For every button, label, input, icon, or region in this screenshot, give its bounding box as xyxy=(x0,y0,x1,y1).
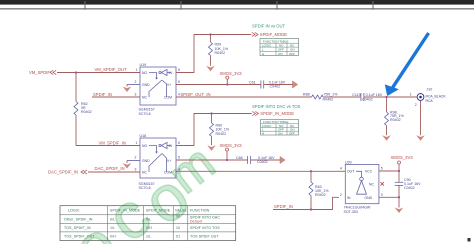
logic table bottom left xyxy=(60,206,236,241)
svg-text:R0402: R0402 xyxy=(81,110,92,114)
bottom right mark xyxy=(468,238,471,242)
svg-text:SPDIF_OUT_IN: SPDIF_OUT_IN xyxy=(181,92,211,97)
svg-text:R0402: R0402 xyxy=(315,193,326,197)
svg-text:SPDIF_IN: SPDIF_IN xyxy=(274,204,293,209)
svg-text:R0402: R0402 xyxy=(390,118,401,122)
resistor R62 xyxy=(74,73,92,146)
power XMOS_3V3 on U18 V+ xyxy=(220,143,243,160)
svg-text:3: 3 xyxy=(135,168,137,172)
svg-text:SPDIF_MODE: SPDIF_MODE xyxy=(146,209,171,213)
svg-text:U18: U18 xyxy=(140,134,147,138)
resistor R60 xyxy=(210,114,230,146)
svg-text:U20: U20 xyxy=(345,160,352,164)
svg-text:NC: NC xyxy=(142,171,147,175)
off-page arrow right C61 xyxy=(293,81,298,88)
svg-text:3: 3 xyxy=(381,193,383,197)
svg-text:5: 5 xyxy=(381,167,383,171)
function table 1 xyxy=(260,39,299,56)
svg-text:C119: C119 xyxy=(352,93,360,97)
op-amp U20 inverter 74HC1GU04 xyxy=(340,160,384,214)
svg-text:TOS_SPDIF_OUT: TOS_SPDIF_OUT xyxy=(64,234,95,238)
svg-text:6: 6 xyxy=(178,141,180,145)
power XMOS_3V3 on U20 xyxy=(391,155,414,171)
svg-text:SPDIF INTO TOS: SPDIF INTO TOS xyxy=(190,226,220,230)
power XMOS_3V3 on U19 V+ xyxy=(220,71,243,84)
wire C119 to RCA xyxy=(364,96,417,98)
svg-text:GND: GND xyxy=(142,159,150,163)
capacitor C90 xyxy=(395,171,421,197)
svg-text:DAC_SPDIF_IN: DAC_SPDIF_IN xyxy=(48,169,78,174)
svg-text:2: 2 xyxy=(135,80,137,84)
svg-text:C0402: C0402 xyxy=(404,186,415,190)
svg-text:5: 5 xyxy=(178,156,180,160)
svg-text:NO: NO xyxy=(142,71,147,75)
svg-text:0/L: 0/L xyxy=(110,217,115,221)
wire SPDIF_IN to U20 pin2 xyxy=(273,197,339,209)
svg-text:RCA: RCA xyxy=(426,99,434,103)
svg-text:VALUE: VALUE xyxy=(175,209,187,213)
wire U19 pin5 V+ xyxy=(176,84,261,86)
svg-text:SC70-6: SC70-6 xyxy=(139,112,151,116)
junction at VM_SPDIF / R62 xyxy=(75,71,77,73)
svg-text:01: 01 xyxy=(176,234,180,238)
wire U19 pin6 up to SPDIF_MODE xyxy=(176,35,251,73)
wire U20 OUT stub xyxy=(339,170,345,172)
wire U18 pin6 up to SPDIF_IN_MODE xyxy=(176,114,252,146)
svg-text:0/L: 0/L xyxy=(146,217,151,221)
ground below J10 xyxy=(416,135,425,141)
ground below R59 xyxy=(206,66,215,72)
svg-text:Other_SPDIF_IN: Other_SPDIF_IN xyxy=(64,217,93,221)
svg-text:R0402: R0402 xyxy=(323,97,334,101)
svg-text:1/L: 1/L xyxy=(110,226,115,230)
svg-text:SPDIF_MODE: SPDIF_MODE xyxy=(260,32,287,37)
wire J10 pin2 to ground xyxy=(420,101,422,136)
resistor R98 xyxy=(385,97,405,135)
svg-text:75R_1%: 75R_1% xyxy=(324,93,339,97)
wire VM_SPDIF to U19 pin1 xyxy=(57,72,140,74)
ground below U20 xyxy=(395,208,404,214)
svg-text:XMOS_3V3: XMOS_3V3 xyxy=(391,155,414,160)
junction R60 xyxy=(210,112,212,114)
svg-text:2: 2 xyxy=(340,193,342,197)
svg-text:SOT-353: SOT-353 xyxy=(344,210,358,214)
capacitor C61 xyxy=(249,80,286,88)
resistor R63 xyxy=(309,171,329,209)
svg-text:COM: COM xyxy=(164,96,172,100)
wire U18 pin4 COM to U20 xyxy=(176,170,339,172)
wire U20 GND xyxy=(379,196,399,198)
svg-text:VCC: VCC xyxy=(365,170,373,174)
svg-text:1/L: 1/L xyxy=(146,234,151,238)
svg-text:LOGIC: LOGIC xyxy=(68,209,80,213)
transistor U18 analog switch SGM3157 xyxy=(135,134,181,190)
svg-text:C61: C61 xyxy=(249,80,256,84)
top toolbar xyxy=(0,0,474,10)
svg-text:2: 2 xyxy=(135,156,137,160)
capacitor C119 xyxy=(352,93,382,102)
off-page arrow right C66 xyxy=(280,157,285,164)
svg-text:GND: GND xyxy=(142,83,150,87)
svg-text:1: 1 xyxy=(136,141,138,145)
svg-text:10: 10 xyxy=(176,226,180,230)
svg-text:FUNCTION: FUNCTION xyxy=(190,209,210,213)
ground at U18 pin2 xyxy=(123,161,140,169)
svg-text:DAC_SPDIF_IN: DAC_SPDIF_IN xyxy=(95,166,125,171)
U19 switch symbol xyxy=(149,73,157,79)
svg-text:IN: IN xyxy=(169,144,173,148)
svg-text:XMOS_3V3: XMOS_3V3 xyxy=(220,71,243,76)
svg-text:SC70-6: SC70-6 xyxy=(139,186,151,190)
off-page connector SPDIF_MODE xyxy=(252,32,287,37)
U20 inverter triangle xyxy=(360,177,364,181)
U20 NC X mark xyxy=(381,182,385,186)
node DAC_SPDIF_IN off-page connector xyxy=(48,169,87,174)
ground below R98 xyxy=(382,135,391,141)
junction R98 node xyxy=(385,96,387,98)
resistor R88 xyxy=(303,93,338,102)
svg-text:VM_SPDIF_OUT: VM_SPDIF_OUT xyxy=(95,67,128,72)
connector J10 RCA xyxy=(410,87,447,107)
svg-text:SPDIF_IN_MODE: SPDIF_IN_MODE xyxy=(260,111,294,116)
svg-text:VM_SPDIF: VM_SPDIF xyxy=(29,70,50,75)
svg-text:5: 5 xyxy=(178,80,180,84)
svg-text:GND: GND xyxy=(365,196,373,200)
wire U20 VCC to power xyxy=(379,170,399,172)
svg-text:COM: COM xyxy=(164,171,172,175)
junction R63 bottom xyxy=(310,208,312,210)
svg-text:IN: IN xyxy=(169,71,173,75)
svg-text:ON: ON xyxy=(278,131,283,135)
svg-text:NO: NO xyxy=(142,144,147,148)
ground below R60 xyxy=(207,145,216,151)
resistor R59 xyxy=(209,35,229,66)
svg-text:RCA_BLACK: RCA_BLACK xyxy=(426,94,447,98)
svg-text:VM_SPDIF_IN: VM_SPDIF_IN xyxy=(99,140,126,145)
svg-text:ON: ON xyxy=(278,52,283,56)
junction R63 top xyxy=(310,170,312,172)
capacitor C66 xyxy=(236,156,275,164)
function table 2 xyxy=(261,120,299,136)
svg-text:R88: R88 xyxy=(303,93,310,97)
svg-text:Default: Default xyxy=(190,219,202,223)
node VM_SPDIF off-page connector xyxy=(29,70,56,75)
svg-text:OUT: OUT xyxy=(347,170,354,174)
U18 inverter bubble symbol xyxy=(161,142,167,148)
svg-text:NC: NC xyxy=(369,182,374,186)
svg-text:H: H xyxy=(262,131,264,135)
watermark green com xyxy=(61,134,225,244)
ground at U19 pin2 xyxy=(123,85,140,93)
U18 switch symbol xyxy=(149,146,157,153)
svg-text:2: 2 xyxy=(415,103,417,107)
blue annotation arrow xyxy=(385,33,429,96)
svg-text:R0402: R0402 xyxy=(215,51,226,55)
wire R88 to C119 xyxy=(323,96,361,98)
svg-text:TOS SPDIF OUT: TOS SPDIF OUT xyxy=(190,234,219,238)
svg-text:OFF: OFF xyxy=(289,52,295,56)
svg-text:3: 3 xyxy=(135,93,137,97)
svg-text:C66: C66 xyxy=(236,156,243,160)
svg-text:NC: NC xyxy=(142,96,147,100)
svg-text:OFF: OFF xyxy=(289,131,295,135)
svg-text:V+: V+ xyxy=(167,159,171,163)
U19 inverter bubble symbol xyxy=(161,69,167,75)
svg-text:H: H xyxy=(262,52,264,56)
svg-text:0/H: 0/H xyxy=(110,234,116,238)
svg-text:1: 1 xyxy=(410,93,412,97)
op-amp U19 analog switch SGM3157 xyxy=(135,63,181,116)
svg-text:TOS_SPDIF_IN: TOS_SPDIF_IN xyxy=(64,226,91,230)
svg-text:C0402: C0402 xyxy=(362,98,373,102)
svg-text:SPDIF_IN_MODE: SPDIF_IN_MODE xyxy=(110,209,141,213)
svg-text:SPDIF IN vs OUT: SPDIF IN vs OUT xyxy=(252,23,285,28)
wire U19 pin4 COM to R88 xyxy=(176,96,312,98)
svg-text:00: 00 xyxy=(176,215,180,219)
wire R62 to U18 pin1 xyxy=(76,145,140,147)
svg-text:IN: IN xyxy=(347,196,351,200)
svg-text:V+: V+ xyxy=(167,83,171,87)
svg-text:U19: U19 xyxy=(140,63,147,67)
off-page connector SPDIF_IN_MODE xyxy=(252,111,294,116)
svg-text:XMOS_3V3: XMOS_3V3 xyxy=(220,143,243,148)
junction R59 xyxy=(209,33,211,35)
wire U18 pin5 V+ xyxy=(176,159,248,161)
svg-text:SPDIF INTO DAC vs TOS: SPDIF INTO DAC vs TOS xyxy=(252,104,301,109)
svg-text:SPDIF_IN: SPDIF_IN xyxy=(93,92,112,97)
svg-text:R0402: R0402 xyxy=(216,132,227,136)
wire SPDIF_IN to U19 pin3 xyxy=(92,96,140,98)
svg-text:6: 6 xyxy=(178,68,180,72)
svg-text:0/H: 0/H xyxy=(146,226,152,230)
svg-text:J10: J10 xyxy=(427,87,433,91)
svg-text:4: 4 xyxy=(340,167,342,171)
wire DAC_SPDIF_IN to U18 pin3 xyxy=(88,171,140,173)
svg-text:1: 1 xyxy=(136,68,138,72)
